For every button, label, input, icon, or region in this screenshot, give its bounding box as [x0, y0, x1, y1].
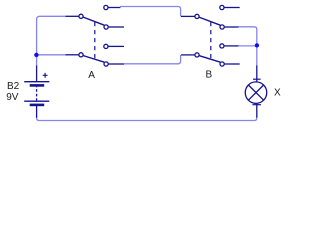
svg-text:X: X	[274, 88, 281, 99]
svg-text:B2: B2	[7, 81, 20, 92]
svg-text:9V: 9V	[6, 92, 19, 103]
svg-text:B: B	[206, 70, 213, 81]
svg-text:A: A	[88, 70, 95, 81]
